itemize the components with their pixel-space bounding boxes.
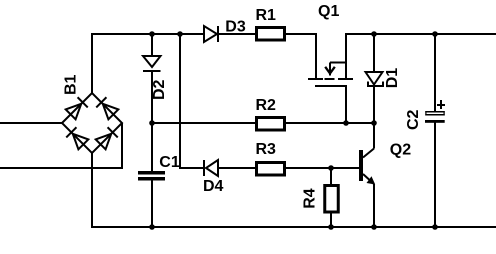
wire bridge plus output to top rail <box>92 34 204 93</box>
capacitor C1 plates <box>138 171 165 175</box>
capacitor C1 top lead <box>151 123 153 172</box>
wire Q2 collector vertical <box>373 123 375 149</box>
transistor Q2 emitter diagonal <box>363 174 374 184</box>
junction dot bottom rail at C2 <box>432 224 438 230</box>
bridge B1 diode top-right <box>96 97 118 119</box>
junction dot bottom rail at C1 <box>149 224 155 230</box>
wire Q2 emitter to bottom rail <box>373 184 375 227</box>
wire R2 left lead <box>152 122 256 124</box>
wire R1 to Q1 source <box>286 34 316 79</box>
junction dot top rail at D1 <box>371 31 377 37</box>
MOSFET Q1 bulk stub <box>330 62 346 64</box>
junction dot D1 cathode node <box>371 120 377 126</box>
svg-text:D4: D4 <box>203 178 224 195</box>
svg-text:R4: R4 <box>302 188 319 209</box>
svg-text:D3: D3 <box>225 18 246 35</box>
MOSFET Q1 channel segment right (drain side) <box>338 78 353 80</box>
MOSFET Q1 channel segment left (source side) <box>308 78 323 80</box>
transistor Q2 base bar <box>359 150 363 181</box>
MOSFET Q1 gate bar <box>315 85 347 87</box>
MOSFET Q1 arrow shaft <box>329 63 331 76</box>
svg-text:Q1: Q1 <box>318 3 339 20</box>
svg-text:B1: B1 <box>63 74 80 95</box>
svg-text:C1: C1 <box>159 154 180 171</box>
junction dot gate node <box>343 120 349 126</box>
wire Q1 gate down to gate node <box>345 86 347 123</box>
capacitor C2 top lead <box>434 34 436 112</box>
wire top rail branch down to D4 <box>180 34 204 168</box>
wire D4 to R3 <box>219 167 256 169</box>
zener diode D1 <box>366 72 383 85</box>
diode D4 <box>203 160 205 176</box>
svg-text:R2: R2 <box>256 97 277 114</box>
MOSFET Q1 channel segment middle <box>325 78 335 80</box>
wire R4 bottom lead <box>330 212 332 227</box>
junction dot R4 top node <box>328 165 334 171</box>
wire bridge minus output and bottom rail <box>92 153 496 227</box>
wire AC input lower to bridge right vertex <box>0 123 122 168</box>
bridge B1 diode bottom-right <box>96 127 118 149</box>
junction dot bottom rail at Q2 emitter <box>371 224 377 230</box>
junction dot top rail at D4 branch <box>177 31 183 37</box>
capacitor C2 plus sign <box>437 100 445 109</box>
resistor R1 <box>257 28 285 41</box>
wire R4 top lead <box>330 168 332 186</box>
diode D2 bottom lead <box>151 71 153 123</box>
diode D2 top lead <box>151 34 153 56</box>
zener D1 cathode to gate node <box>373 86 375 123</box>
transistor Q2 emitter arrowhead <box>367 176 376 184</box>
wire AC input upper <box>0 122 62 124</box>
diode D2 <box>143 56 161 67</box>
svg-text:R3: R3 <box>256 141 277 158</box>
svg-text:D1: D1 <box>384 68 401 89</box>
capacitor C2 bottom lead <box>434 122 436 227</box>
junction dot top rail at D2 <box>149 31 155 37</box>
wire R3 to Q2 base <box>286 167 359 169</box>
capacitor C2 plus plate <box>425 111 444 116</box>
bridge B1 diode bottom-left <box>66 127 88 149</box>
junction dot top rail at C2 <box>432 31 438 37</box>
bridge B1 diamond <box>62 93 122 153</box>
resistor R4 <box>325 186 339 213</box>
MOSFET Q1 arrow chevron <box>325 67 335 74</box>
zener D1 top lead <box>373 34 375 72</box>
diode D3 <box>204 26 217 42</box>
wire R2 right to gate node and D1 <box>286 122 374 124</box>
svg-text:Q2: Q2 <box>390 142 411 159</box>
wire D3 to R1 <box>218 33 256 35</box>
junction dot bottom rail at R4 <box>328 224 334 230</box>
svg-text:R1: R1 <box>256 7 277 24</box>
capacitor C1 bottom lead <box>151 180 153 227</box>
resistor R3 <box>257 163 285 176</box>
resistor R2 <box>257 118 285 131</box>
bridge B1 diode top-left <box>66 97 88 119</box>
wire Q1 bulk to top rail and rail to right edge <box>346 34 496 79</box>
capacitor C2 minus plate <box>425 120 445 123</box>
svg-text:D2: D2 <box>151 79 168 100</box>
svg-text:C2: C2 <box>405 109 422 130</box>
junction dot node D2/C1/R2 <box>149 120 155 126</box>
transistor Q2 collector diagonal <box>363 149 374 158</box>
